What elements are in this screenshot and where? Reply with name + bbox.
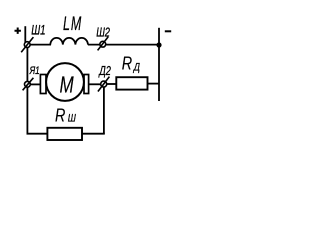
wire: [88, 44, 159, 46]
terminal Я1: [23, 78, 34, 91]
svg-text:Д: Д: [133, 62, 140, 74]
terminal Ш2: [98, 37, 109, 51]
left rail wire: [27, 47, 48, 133]
svg-text:Д2: Д2: [98, 65, 111, 79]
label RШ: [55, 106, 77, 126]
motor M circle: [46, 63, 84, 101]
svg-text:R: R: [122, 54, 133, 74]
minus terminal -: [165, 30, 171, 32]
wire: [27, 45, 51, 48]
svg-text:M: M: [60, 73, 74, 98]
rheostat RШ: [47, 128, 82, 140]
wire: [82, 133, 105, 135]
svg-text:LM: LM: [63, 13, 82, 34]
wire: [104, 83, 116, 85]
wire: [89, 83, 101, 85]
wire: [148, 83, 160, 85]
label RД: [122, 54, 140, 74]
motor M left brush: [40, 75, 46, 94]
svg-text:Ш1: Ш1: [31, 23, 45, 38]
inductor LM: [50, 38, 88, 45]
terminal bar plus: [24, 26, 26, 42]
resistor RД: [116, 77, 147, 89]
svg-text:Ш: Ш: [68, 113, 77, 125]
terminal Д2: [98, 77, 110, 92]
wire right drop: [103, 84, 105, 133]
minus rail wire: [158, 28, 160, 101]
svg-text:R: R: [55, 106, 66, 126]
svg-text:Я1: Я1: [29, 65, 40, 78]
wire: [30, 83, 40, 85]
junction node: [156, 42, 161, 47]
svg-text:Ш2: Ш2: [96, 26, 110, 40]
terminal Ш1: [21, 37, 33, 52]
motor M right brush: [84, 75, 89, 94]
plus terminal +: [15, 28, 21, 34]
